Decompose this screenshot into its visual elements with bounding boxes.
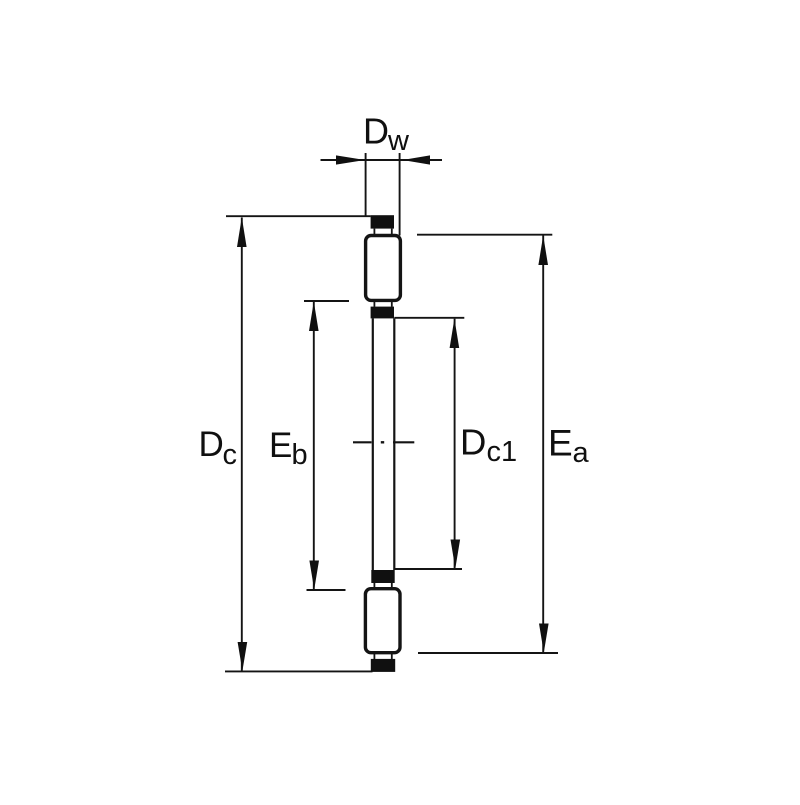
Dc1 top extension line (394, 317, 464, 319)
Dc bottom arrowhead (238, 642, 248, 671)
svg-text:w: w (387, 125, 410, 157)
Dc1 top arrowhead (450, 319, 460, 348)
Ea top extension line (417, 234, 552, 236)
Eb dimension line (313, 302, 315, 590)
centre mark left dash (353, 441, 372, 443)
svg-text:D: D (460, 422, 486, 463)
svg-text:D: D (199, 425, 224, 464)
label Dw (363, 111, 410, 158)
bottom roller lower neck (373, 652, 375, 659)
bottom cage washer upper (black section) (371, 570, 394, 583)
centre mark dot (381, 441, 384, 443)
Dw dimension line (321, 159, 443, 161)
Eb top arrowhead (309, 302, 319, 332)
Ea bottom arrowhead (539, 624, 549, 653)
Ea dimension line (542, 235, 544, 652)
centre mark right dash (393, 441, 414, 443)
label Ea (548, 423, 590, 470)
Eb bottom arrowhead (309, 561, 319, 590)
bottom roller (365, 589, 400, 653)
bottom roller upper neck (373, 583, 375, 590)
top roller upper neck (373, 229, 375, 237)
top roller lower neck (373, 300, 375, 307)
Eb top extension line (304, 300, 349, 302)
Dw right arrowhead (403, 155, 431, 164)
svg-text:E: E (548, 423, 573, 464)
Dc dimension line (241, 218, 243, 672)
svg-text:c: c (223, 439, 238, 471)
Dw right extension line (399, 153, 401, 236)
top cage washer upper (black section) (371, 215, 394, 228)
label Dc (199, 425, 238, 471)
top roller (366, 236, 401, 301)
label Dc1 (460, 422, 517, 469)
label Eb (269, 426, 308, 471)
Ea bottom extension line (418, 652, 558, 654)
top cage washer lower (black section) (371, 307, 394, 319)
cage strip left wall (372, 318, 374, 570)
Eb bottom extension line (307, 589, 346, 591)
Dc1 dimension line (454, 319, 456, 569)
svg-text:b: b (292, 439, 308, 471)
svg-text:a: a (573, 437, 590, 469)
Dc top extension line (226, 215, 371, 217)
svg-text:D: D (363, 111, 389, 152)
Dc1 bottom extension line (394, 568, 462, 570)
cage strip right wall (393, 318, 395, 570)
Dw left extension line (365, 153, 367, 216)
Dw left arrowhead (336, 155, 365, 164)
Ea top arrowhead (538, 235, 548, 265)
Dc1 bottom arrowhead (451, 540, 461, 569)
svg-text:E: E (269, 426, 292, 465)
Dc top arrowhead (237, 217, 247, 247)
Dc bottom extension line (225, 670, 373, 672)
svg-text:c1: c1 (487, 436, 518, 468)
bottom cage washer lower (black section) (371, 659, 395, 672)
